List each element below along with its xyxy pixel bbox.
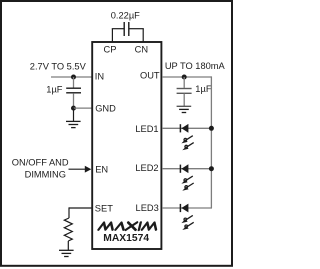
wire OUT [162, 76, 211, 78]
wire SET down to resistor [68, 207, 70, 218]
LED D2 [180, 164, 193, 190]
arrowhead EN [85, 166, 92, 173]
svg-text:OUT: OUT [140, 70, 160, 80]
svg-text:DIMMING: DIMMING [25, 169, 66, 179]
ground symbol SET [59, 250, 74, 256]
junction dot at GND [71, 106, 76, 111]
wire GND node down [73, 108, 75, 121]
ground symbol input [66, 121, 81, 127]
svg-text:LED3: LED3 [136, 203, 159, 213]
svg-text:GND: GND [95, 104, 116, 114]
IC U1 MAX1574 box [92, 42, 161, 249]
wire CP vertical [111, 29, 113, 42]
wire CN horizontal [129, 28, 144, 30]
wire resistor to ground [67, 241, 69, 250]
wire output bus vertical [210, 76, 212, 208]
ground symbol output [177, 106, 192, 112]
wire LED3 [162, 207, 212, 209]
wire CN vertical [142, 29, 144, 42]
capacitor C3 1uF plates [177, 88, 192, 90]
wire EN with arrow [69, 168, 86, 170]
svg-text:MAX1574: MAX1574 [103, 233, 149, 244]
svg-text:UP TO 180mA: UP TO 180mA [165, 61, 226, 71]
svg-text:LED1: LED1 [135, 124, 158, 134]
wire LED1 [162, 127, 211, 129]
junction dot at IN [71, 75, 76, 80]
junction dot LED2 bus [209, 166, 214, 171]
svg-text:SET: SET [95, 203, 113, 213]
wire IN [51, 76, 92, 78]
wire GND [74, 107, 93, 109]
LED D1 [180, 124, 193, 150]
LED D3 [180, 204, 193, 230]
capacitor C1 0.22uF plates [123, 22, 125, 36]
svg-text:1µF: 1µF [195, 84, 212, 94]
svg-text:1µF: 1µF [46, 84, 63, 94]
svg-text:CP: CP [104, 44, 117, 54]
svg-text:LED2: LED2 [135, 163, 158, 173]
MAXIM logo [98, 222, 157, 230]
junction dot at OUT [182, 75, 187, 80]
wire C3 to ground [183, 94, 185, 106]
wire junction to C2 [73, 77, 75, 88]
border frame [1, 1, 232, 266]
wire LED2 [162, 168, 211, 170]
resistor R1 [64, 218, 72, 241]
wire OUT cap down [183, 77, 185, 88]
wire SET [69, 207, 92, 209]
svg-text:ON/OFF AND: ON/OFF AND [12, 158, 69, 168]
svg-text:0.22µF: 0.22µF [111, 11, 140, 21]
junction dot LED1 bus [209, 126, 214, 131]
wire CP horizontal [112, 28, 124, 30]
svg-text:EN: EN [95, 164, 108, 174]
wire C2 to GND node [73, 93, 75, 108]
svg-text:IN: IN [95, 72, 104, 82]
svg-text:CN: CN [135, 44, 148, 54]
svg-text:2.7V TO 5.5V: 2.7V TO 5.5V [30, 61, 87, 71]
capacitor C2 1uF plates [66, 87, 81, 89]
